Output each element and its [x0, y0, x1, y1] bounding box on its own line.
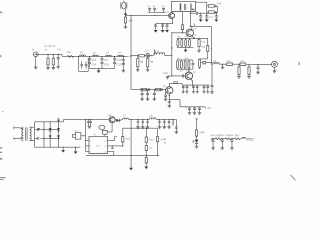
wire chain link 3 [240, 138, 242, 140]
wire R33 down [156, 142, 158, 156]
wire bottom long [86, 155, 159, 156]
transistor Q5 [109, 117, 115, 123]
inductor L9 choke [172, 119, 173, 125]
capacitor C40 [257, 64, 260, 72]
wire Q4 emitter [191, 79, 193, 85]
label bubble Q5 [99, 125, 105, 129]
wire input segment 1 [38, 54, 62, 55]
wire Q3 emitter [168, 94, 170, 100]
capacitor C9 [199, 16, 202, 19]
capacitor C21 [122, 56, 125, 70]
capacitor C22 [145, 51, 150, 57]
ground under R15 [197, 50, 201, 52]
label interstage 2 [201, 47, 206, 49]
capacitor C41 [34, 128, 44, 129]
capacitor C12 [57, 54, 60, 66]
capacitor C16 [88, 62, 97, 68]
transformer T1 core [184, 4, 185, 10]
ground under LED [195, 146, 199, 148]
wire osc cap bus [148, 11, 166, 13]
ground under R8 [136, 70, 140, 72]
wire rectifier left [33, 122, 35, 147]
node A junction [124, 13, 126, 15]
wire right column [145, 128, 147, 137]
wire R31 R31b [145, 142, 147, 145]
transformer T1 primary winding [179, 4, 182, 11]
wire base column [171, 33, 173, 76]
label J1 [32, 50, 35, 52]
wire long vertical right [210, 26, 212, 64]
ground under C59 [202, 91, 205, 93]
capacitor C37 [188, 107, 192, 115]
svg-text:R37: R37 [235, 133, 240, 137]
wire bridge column 2 [58, 121, 59, 147]
pin 6 U1 [105, 141, 112, 143]
resistor R11 [177, 38, 179, 47]
pin 5 U1 [105, 146, 112, 148]
svg-text:R17: R17 [177, 58, 180, 60]
wire cross link [123, 128, 158, 129]
svg-text:C25: C25 [163, 71, 168, 75]
node base feed taps [142, 89, 155, 90]
label right col 2 [164, 142, 167, 144]
capacitor C48 [141, 119, 145, 128]
IC U1 body [89, 136, 108, 153]
wire Q2 collector [191, 26, 193, 30]
ground under R4 [46, 68, 50, 70]
ground under C55 [220, 148, 224, 150]
wire rail mid [120, 119, 123, 120]
capacitor C15 [88, 57, 97, 63]
capacitor C26 coupling [182, 74, 186, 77]
LED D8 [193, 140, 199, 144]
capacitor C51 [162, 119, 166, 128]
inductor L3 [106, 50, 112, 56]
svg-text:C16: C16 [91, 62, 96, 66]
transformer T1 secondary winding [189, 4, 192, 11]
resistor R34 [195, 130, 204, 136]
svg-text:R4 10k: R4 10k [45, 46, 53, 48]
scan mark bottom right [290, 175, 295, 180]
wire LPF ground bus [90, 68, 115, 69]
diode D2 [215, 11, 217, 13]
label top right [217, 1, 222, 5]
scan mark left 2 [0, 55, 1, 57]
inductor L8 [149, 115, 156, 119]
svg-text:C18: C18 [104, 62, 109, 66]
ground under R9 [146, 70, 150, 72]
inductor L10 [242, 137, 246, 138]
resistor R30 [122, 128, 131, 142]
ground under R38 [144, 166, 148, 169]
capacitor C43 [57, 118, 60, 122]
resistor R22 [203, 61, 206, 64]
capacitor C56 [230, 135, 235, 148]
pin 1 U1 [85, 141, 91, 143]
wire R7 to C22 [144, 55, 146, 57]
wire rectifier right [43, 122, 44, 147]
capacitor C17 [101, 57, 110, 63]
wire bypass bus [180, 106, 205, 108]
scan mark left 3 [0, 147, 2, 148]
label VCC [246, 137, 254, 141]
resistor R7 [139, 54, 145, 57]
wire rail left [63, 119, 109, 120]
svg-text:C19: C19 [117, 58, 122, 62]
label interstage 1 [201, 42, 206, 44]
diode D5 [49, 135, 52, 138]
scan mark right edge [298, 62, 300, 65]
wire stage2 out [201, 62, 203, 64]
wire LED feed [196, 118, 198, 130]
ground under R1 [124, 27, 128, 29]
inductor L4 [118, 50, 124, 56]
resistor R33 [156, 128, 165, 142]
resistor R4 [47, 54, 49, 67]
wire U1 pin6 net [111, 137, 117, 141]
label R4 [45, 46, 53, 51]
label R5 [53, 46, 57, 48]
wire Q3 emitter run [169, 99, 180, 100]
resistor R25 [227, 61, 233, 65]
ground under C57 [210, 92, 214, 94]
terminal AC2 [14, 137, 17, 140]
wire pin4 drop [111, 151, 113, 155]
capacitor C47 [136, 119, 140, 128]
capacitor C34 [152, 90, 156, 101]
capacitor C42 plates [38, 137, 39, 140]
resistor R37 [235, 133, 241, 139]
wire R2 R3 right [214, 6, 217, 13]
label right col 1 [164, 139, 167, 141]
svg-text:C17: C17 [104, 58, 109, 62]
resistor R23 [141, 88, 147, 91]
wire rail end drop [175, 119, 177, 126]
resistor R14 [189, 38, 191, 47]
wire Q1 collector [172, 12, 174, 13]
resistor R15 [198, 38, 200, 50]
svg-text:R13: R13 [185, 36, 188, 38]
wire Q4 base [171, 75, 182, 76]
capacitor C8 coupling [196, 12, 200, 15]
resistor R2 [208, 5, 214, 8]
transistor Q1 [166, 12, 175, 19]
wire R30 bottom [122, 142, 124, 146]
wire R31b down [145, 150, 147, 155]
label R1 value [128, 18, 133, 22]
label C12 [57, 49, 62, 51]
label bypass row [206, 106, 211, 110]
wire to bypass [200, 13, 216, 16]
ground under C27 [182, 91, 185, 93]
node filter taps [78, 56, 115, 57]
wire rail riser [62, 119, 64, 122]
wire VCC chain [211, 138, 215, 140]
wire collector takeoff [211, 62, 213, 64]
resistor R29 box [103, 130, 108, 134]
transformer T2 primary [21, 127, 24, 141]
capacitor C57 bypass [210, 64, 213, 91]
wire T1 output [190, 12, 196, 14]
resistor R38 below [145, 156, 147, 167]
wire LED to ground [196, 143, 198, 146]
capacitor C38 [193, 107, 197, 115]
wire AC leads [16, 128, 20, 139]
scan speck [2, 111, 3, 112]
wire DC minus bus [34, 147, 80, 148]
resistor R17 [177, 60, 179, 69]
ground under C9 [199, 19, 203, 22]
ground under R5 [52, 68, 56, 70]
wire U1 pin5 net [111, 145, 123, 146]
resistor R19 [184, 60, 186, 69]
wire R2 R3 left [207, 6, 209, 12]
ground under R27 [237, 76, 241, 78]
transformer T1 can [172, 1, 196, 11]
capacitor C13 trap [81, 61, 83, 68]
resistor R24 [155, 88, 162, 91]
wire vertical mid [131, 119, 132, 167]
wire R25 to R26 [232, 64, 240, 65]
ground under C28 [185, 91, 188, 93]
regulator U2 [72, 131, 85, 140]
connector J1 input [33, 52, 38, 57]
wire rail segment 3 [156, 119, 176, 120]
resistor R9 shunt [147, 55, 154, 69]
ground under C40 [256, 72, 260, 74]
diode D4 [57, 128, 60, 131]
ground under C54 [211, 148, 215, 150]
wire Q2 emitter [192, 36, 195, 39]
ground DC bus 2 [74, 147, 78, 154]
capacitor C41 plates [38, 128, 39, 131]
resistor R10 bias [181, 12, 183, 33]
resistor R1 [124, 17, 126, 27]
svg-text:+9V: +9V [217, 1, 222, 5]
scan mark left 5 [0, 158, 2, 159]
wire can top right [196, 2, 207, 12]
wire base network [107, 131, 112, 133]
svg-text:C15: C15 [91, 58, 96, 62]
wire Q5 emitter to diode [115, 119, 116, 122]
capacitor C53 [175, 127, 178, 132]
transistor Q2 [186, 29, 197, 37]
ground under C35 [167, 105, 171, 107]
resistor R21 tall [198, 59, 207, 69]
svg-text:R6: R6 [68, 50, 72, 54]
capacitor C10 [205, 13, 213, 19]
diode D1 [215, 5, 217, 7]
capacitor C39 [198, 107, 202, 115]
label U1 [93, 134, 97, 136]
capacitor C50 [158, 119, 162, 128]
wire Q5 base lead [111, 123, 113, 132]
inductor L1 [80, 50, 86, 56]
wire chain link 2 [231, 138, 235, 139]
pin 4 U1 [105, 151, 112, 153]
crystal Y1 [121, 1, 127, 10]
wire to vertical [206, 62, 212, 64]
resistor R3 [208, 11, 214, 14]
wire interstage [199, 38, 208, 59]
capacitor C18 [101, 62, 110, 68]
svg-text:VCC: VCC [246, 137, 254, 141]
wire J1 ground lead [35, 57, 37, 67]
capacitor C32 [140, 90, 144, 101]
ground under C53 [175, 132, 179, 134]
capacitor C36 [164, 90, 168, 101]
resistor R13 [185, 38, 187, 47]
resistor R20 [188, 60, 190, 69]
label Q5 [108, 115, 112, 117]
svg-text:+12: +12 [206, 106, 211, 110]
resistor R18 [180, 60, 182, 69]
ground under C30 [196, 91, 199, 93]
wire U1 left pins [84, 141, 86, 152]
capacitor C59 [203, 85, 206, 91]
resistor R16 [207, 46, 209, 52]
resistor R31 [145, 137, 154, 142]
pin 2 U1 [85, 146, 91, 148]
ground mid column [129, 168, 133, 171]
wire chain link 1 [221, 138, 225, 139]
inductor L2 [93, 50, 99, 56]
capacitor C2 [153, 6, 157, 13]
capacitor C54 [211, 135, 216, 148]
wire Q3 base feed [131, 89, 166, 91]
diode D6 [57, 135, 60, 138]
label interstage 3 [210, 49, 213, 51]
capacitor C52 [167, 119, 171, 128]
inductor L5 [154, 50, 165, 56]
capacitor C33 [146, 90, 150, 101]
capacitor C28 [186, 85, 189, 91]
wire osc output [124, 9, 126, 17]
wire C22 to L5 [148, 55, 154, 56]
svg-text:R11: R11 [178, 36, 181, 38]
inductor L7 [123, 115, 129, 119]
capacitor C27 [182, 85, 185, 91]
capacitor C14 trap [85, 61, 87, 68]
resistor R26 [240, 61, 246, 65]
ground stub [221, 64, 225, 69]
wire Q1 base [168, 15, 170, 17]
ground under J1 [34, 67, 38, 69]
ground under R28 [247, 76, 251, 78]
ground under C29 [192, 91, 195, 93]
capacitor C49 [146, 119, 150, 128]
wire Q4 collector [188, 69, 190, 72]
wire R29 down [104, 134, 106, 136]
transformer T2 core [26, 127, 27, 140]
capacitor C35 [168, 100, 171, 106]
wire R34 to LED [196, 136, 198, 139]
wire Q2 emitter bus top [177, 36, 194, 38]
wire Q4 collector bus bottom [177, 69, 193, 73]
wire T1 secondary tap [190, 12, 191, 27]
wire bridge taps [44, 129, 59, 139]
terminal AC1 [14, 127, 17, 130]
wire Q4 collector bus top [177, 58, 193, 60]
wire input jog [62, 54, 132, 57]
scan mark left 1 [0, 12, 2, 14]
wire J2 ground lead [274, 67, 276, 70]
capacitor C55 [220, 135, 225, 148]
wire emitter to R15 [194, 35, 199, 39]
capacitor C19 [113, 57, 122, 63]
ground LPF bus [97, 68, 101, 73]
capacitor C4 [154, 24, 158, 33]
capacitor C6 [165, 24, 169, 33]
resistor R39 small [174, 82, 178, 84]
capacitor C24 [191, 60, 194, 69]
wire Q1 emitter bus [156, 18, 173, 24]
capacitor C42 [34, 137, 44, 139]
scan mark bottom left [0, 177, 6, 180]
resistor R36 [225, 133, 231, 139]
capacitor C20 [113, 62, 122, 68]
wire Q4 emitter tie [182, 84, 210, 85]
transistor Q3 [163, 86, 173, 94]
wire supply rail top [190, 24, 212, 27]
wire DC plus bus [34, 121, 63, 122]
ground under J2 [273, 71, 277, 73]
wire U1 supply drop [84, 119, 86, 140]
capacitor C60 [206, 85, 209, 91]
diode D7 [116, 119, 119, 123]
ground Q2 emitter [184, 47, 188, 52]
wire Q3 collector [169, 83, 182, 86]
svg-text:R19: R19 [185, 58, 188, 60]
wire modulated segment [130, 55, 138, 56]
wire A horizontal [125, 15, 168, 16]
capacitor C25 base [163, 71, 172, 79]
wire to C11 [215, 13, 217, 16]
wire bridge column 1 [50, 121, 51, 147]
label U1 inner [96, 145, 100, 147]
capacitor C45 [87, 119, 89, 126]
capacitor C29 [192, 85, 195, 91]
ground under C21 [122, 70, 126, 72]
pin 3 U1 [85, 151, 91, 153]
capacitor C31 [149, 88, 150, 91]
svg-text:C20: C20 [117, 62, 122, 66]
resistor R31b [145, 145, 153, 150]
transistor Q4 [185, 72, 196, 80]
wire L5 to base node [165, 55, 173, 56]
svg-text:R9: R9 [150, 60, 154, 64]
transformer T2 secondary [30, 127, 35, 141]
wire trap loop [79, 57, 89, 72]
resistor R8 shunt [137, 55, 144, 69]
scan mark left 4 [0, 152, 2, 153]
resistor R5 [52, 54, 54, 67]
ground DC bus 1 [61, 147, 65, 152]
capacitor C5 [161, 24, 165, 33]
capacitor C46 [88, 119, 92, 128]
ground under C11 [214, 19, 218, 22]
capacitor C1 [148, 6, 152, 13]
connector J2 output [272, 61, 278, 67]
svg-text:R8: R8 [140, 60, 144, 64]
ground under C12 [56, 66, 60, 68]
ground under C10 [205, 19, 209, 22]
wire rail segment 2 [128, 119, 149, 120]
resistor R27 shunt [238, 64, 240, 76]
inductor L6 [213, 59, 220, 65]
capacitor C30 [196, 85, 199, 91]
wire R26 to J2 [246, 64, 272, 65]
